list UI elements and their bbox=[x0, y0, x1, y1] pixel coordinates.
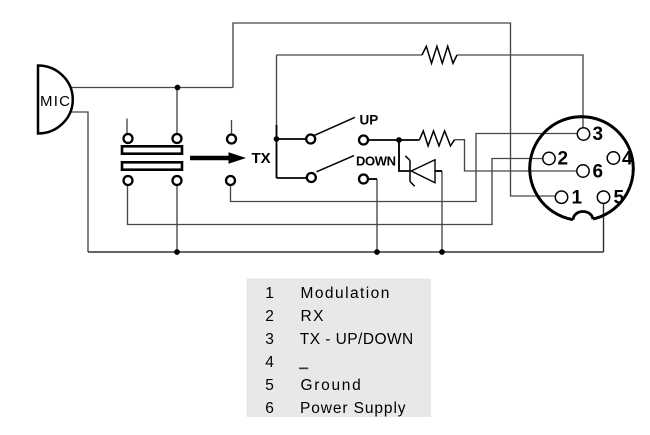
svg-text:TX: TX bbox=[252, 150, 271, 167]
svg-text:2: 2 bbox=[265, 308, 274, 325]
svg-text:UP: UP bbox=[360, 112, 379, 127]
svg-text:MIC: MIC bbox=[40, 93, 71, 110]
svg-text:2: 2 bbox=[558, 149, 569, 170]
svg-text:4: 4 bbox=[622, 149, 633, 170]
svg-text:5: 5 bbox=[614, 188, 625, 209]
svg-text:1: 1 bbox=[265, 285, 274, 302]
svg-text:6: 6 bbox=[593, 162, 604, 183]
svg-text:Ground: Ground bbox=[301, 377, 363, 394]
svg-text:DOWN: DOWN bbox=[356, 154, 396, 169]
svg-text:3: 3 bbox=[265, 331, 274, 348]
svg-text:3: 3 bbox=[593, 124, 604, 145]
svg-text:Modulation: Modulation bbox=[301, 285, 391, 302]
svg-text:1: 1 bbox=[572, 188, 583, 209]
svg-text:4: 4 bbox=[265, 354, 274, 371]
svg-text:6: 6 bbox=[265, 400, 274, 417]
svg-text:TX - UP/DOWN: TX - UP/DOWN bbox=[300, 331, 414, 348]
svg-text:5: 5 bbox=[265, 377, 274, 394]
svg-text:Power Supply: Power Supply bbox=[300, 400, 406, 417]
svg-text:RX: RX bbox=[301, 308, 325, 325]
